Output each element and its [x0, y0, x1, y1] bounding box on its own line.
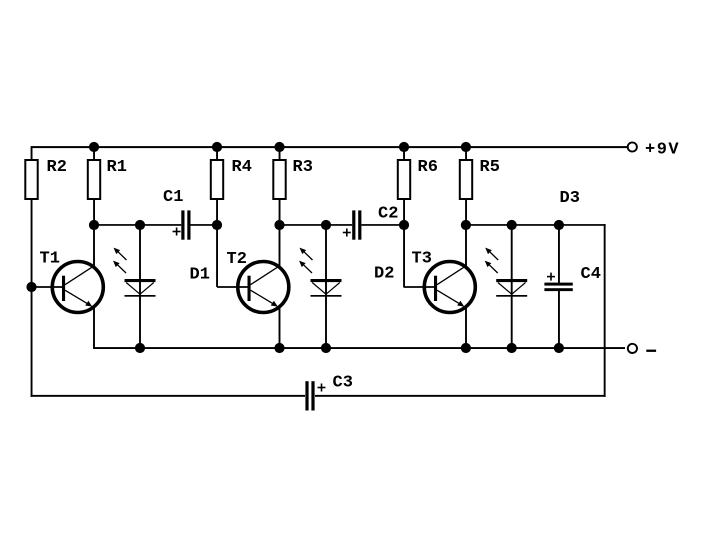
wire R4 bottom — [216, 199, 218, 225]
wire bottom feedback loop left of C3 — [31, 395, 305, 397]
wire right vertical (T3 collector to C3) — [604, 224, 606, 397]
wire collector node row T3 (R5 to right wire) — [466, 224, 606, 226]
wire C4 top — [558, 225, 560, 283]
transistor T3 — [404, 225, 476, 348]
junction dot T2 emitter rail — [274, 343, 284, 353]
capacitor C3 — [305, 381, 325, 410]
junction dot T3 collector node — [461, 220, 471, 230]
svg-text:R1: R1 — [107, 158, 127, 177]
junction dot D2 cathode rail — [321, 343, 331, 353]
junction dot D1 cathode rail — [135, 343, 145, 353]
svg-text:T3: T3 — [412, 250, 432, 269]
wire C4 bottom — [558, 291, 560, 348]
resistor R1 — [88, 160, 100, 199]
junction dot T1 collector node — [89, 220, 99, 230]
junction dot D1 anode — [135, 220, 145, 230]
svg-text:T1: T1 — [40, 250, 60, 269]
svg-text:D2: D2 — [374, 265, 394, 284]
transistor T2 — [217, 225, 289, 348]
junction dot C4 bottom rail — [554, 343, 564, 353]
wire top +9V rail — [32, 146, 628, 148]
svg-text:R5: R5 — [480, 158, 500, 177]
junction dot R6 / T3 base node — [399, 220, 409, 230]
svg-text:D3: D3 — [560, 189, 580, 208]
wire T2 base vertical from R4 node — [216, 225, 218, 287]
capacitor C2 — [343, 210, 362, 239]
junction dot R1 top rail — [89, 142, 99, 152]
resistor R3 — [273, 160, 285, 199]
wire R5 top — [465, 147, 467, 161]
wire R1 bottom — [93, 199, 95, 225]
junction dot D3 cathode rail — [507, 343, 517, 353]
junction dot T1 base — [26, 282, 36, 292]
svg-text:C2: C2 — [378, 205, 398, 224]
wire bottom minus rail — [93, 347, 625, 349]
label minus sign — [646, 350, 656, 352]
wire R4 top — [216, 147, 218, 161]
junction dot R3 top rail — [274, 142, 284, 152]
resistor R2 — [25, 160, 37, 199]
svg-text:C1: C1 — [163, 188, 183, 207]
wire R3 bottom — [279, 199, 281, 225]
wire T3 base vertical from R6 node — [403, 225, 405, 287]
svg-text:D1: D1 — [190, 266, 210, 285]
LED D2 — [299, 225, 342, 348]
wire R3 top — [279, 147, 281, 161]
svg-text:R2: R2 — [47, 158, 67, 177]
LED D3 — [485, 225, 528, 348]
wire collector node row T1 (R1 to C1) — [94, 224, 181, 226]
svg-text:R6: R6 — [418, 158, 438, 177]
junction dot C4 top — [554, 220, 564, 230]
wire R6 bottom — [403, 199, 405, 225]
wire R6 top — [403, 147, 405, 161]
resistor R5 — [460, 160, 472, 199]
junction dot T2 collector node — [274, 220, 284, 230]
resistor R6 — [398, 160, 410, 199]
wire bottom feedback loop right of C3 — [315, 395, 606, 397]
junction dot R5 top rail — [461, 142, 471, 152]
svg-text:R3: R3 — [293, 158, 313, 177]
junction dot D2 anode — [321, 220, 331, 230]
terminal +9V — [628, 142, 637, 151]
capacitor C4 — [544, 273, 572, 292]
wire R5 bottom — [465, 199, 467, 225]
svg-text:C3: C3 — [333, 374, 353, 393]
junction dot T3 emitter rail — [461, 343, 471, 353]
svg-text:R4: R4 — [232, 158, 252, 177]
wire R1 top — [93, 147, 95, 161]
junction dot R4 / T2 base node — [212, 220, 222, 230]
svg-text:C4: C4 — [581, 265, 601, 284]
wire node row C2 to R6 — [361, 224, 404, 226]
transistor T1 — [32, 225, 104, 348]
wire node row C1 to R4 — [191, 224, 218, 226]
LED D1 — [113, 225, 156, 348]
capacitor C1 — [173, 210, 191, 239]
wire collector node row T2 (R3 to C2) — [280, 224, 353, 226]
junction dot R4 top rail — [212, 142, 222, 152]
resistor R4 — [211, 160, 223, 199]
svg-text:T2: T2 — [227, 250, 247, 269]
wire left vertical (R2 / T1 base / C3 net) — [31, 146, 33, 397]
junction dot D3 anode — [507, 220, 517, 230]
terminal minus — [628, 344, 637, 353]
svg-text:+9V: +9V — [645, 141, 680, 160]
junction dot R6 top rail — [399, 142, 409, 152]
